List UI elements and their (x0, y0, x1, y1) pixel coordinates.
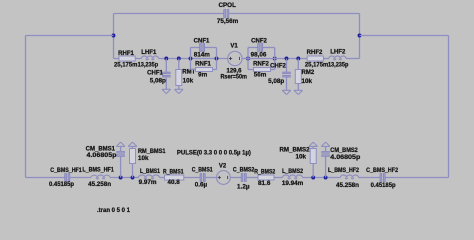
capacitor C_BMS2 (241, 174, 243, 182)
node loop1 right (215, 57, 219, 61)
wire loop1 frame (190, 48, 192, 70)
svg-text:56m: 56m (254, 72, 267, 79)
svg-text:98,06: 98,06 (251, 51, 267, 58)
node loop2 right (273, 57, 277, 61)
svg-text:C_BMS_HF1: C_BMS_HF1 (50, 168, 82, 174)
wire bottom seg4 (160, 177, 165, 179)
capacitor C_BMS_HF1 (65, 174, 67, 182)
ground above CM_BMS2 (321, 142, 330, 146)
svg-text:V1: V1 (230, 43, 238, 49)
inductor LHF1 (142, 56, 159, 60)
node RM2 junction (296, 57, 300, 61)
resistor RMT (178, 59, 180, 70)
wire bottom seg8 (246, 177, 258, 179)
wire bottom seg6 (205, 177, 217, 179)
svg-text:RM2: RM2 (302, 70, 315, 76)
svg-text:40.8: 40.8 (167, 179, 180, 186)
resistor R_BMS2 (258, 175, 274, 180)
wire bottom seg1 (26, 177, 66, 179)
capacitor CNF2 (258, 44, 260, 52)
node left junction (112, 34, 116, 38)
resistor RHF2 (307, 56, 323, 61)
svg-text:4.06805p: 4.06805p (87, 152, 117, 159)
svg-text:CHF2: CHF2 (270, 64, 286, 70)
node RM_BMS2 junction (311, 176, 315, 180)
svg-text:5,08p: 5,08p (268, 78, 284, 85)
inductor L_BMS_HF2 (341, 175, 359, 179)
node CM_BMS1 junction (119, 176, 123, 180)
svg-text:RNF1: RNF1 (195, 61, 211, 67)
wire bottom seg7 (230, 177, 241, 179)
svg-text:Rser=50m: Rser=50m (220, 73, 247, 80)
resistor RNF2 (254, 68, 271, 72)
node RMT junction (177, 57, 181, 61)
resistor R_BMS1 (165, 175, 184, 180)
svg-text:C_BMS2: C_BMS2 (233, 168, 255, 174)
resistor RNF1 (196, 68, 213, 72)
svg-text:PULSE(0 3.3 0 0 0 0.5µ 1µ): PULSE(0 3.3 0 0 0 0.5µ 1µ) (177, 149, 251, 156)
wire upper-left horizontal (26, 35, 114, 37)
inductor L_BMS_HF1 (91, 175, 110, 179)
capacitor C_BMS1 (200, 174, 202, 182)
svg-text:10k: 10k (302, 78, 313, 85)
voltage source V1 (228, 51, 242, 65)
svg-text:0.45185p: 0.45185p (49, 181, 74, 188)
svg-text:9m: 9m (198, 72, 208, 79)
wire bottom seg10 (303, 177, 341, 179)
svg-text:L_BMS2: L_BMS2 (282, 169, 304, 175)
svg-text:5,08p: 5,08p (150, 78, 166, 85)
wire RHF2 to LHF2 (323, 58, 329, 60)
wire left drop (113, 14, 115, 59)
wire bottom seg11 (359, 177, 381, 179)
svg-text:4.06805p: 4.06805p (330, 154, 360, 161)
svg-text:0.6µ: 0.6µ (195, 181, 208, 188)
ground above RM_BMS1 (128, 142, 137, 146)
wire top rail right segment (228, 13, 359, 15)
svg-text:.tran 0 5 0 1: .tran 0 5 0 1 (97, 207, 130, 214)
wire right drop (359, 14, 361, 59)
node CHF1 junction (164, 57, 168, 61)
svg-text:RNF2: RNF2 (253, 61, 269, 67)
resistor RM2 (297, 59, 299, 70)
wire mid into RHF1 (114, 58, 142, 60)
wire bottom seg12 (385, 177, 448, 179)
resistor RM_BMS2 (312, 164, 314, 178)
svg-text:L_BMS1: L_BMS1 (140, 169, 161, 175)
svg-text:CHF1: CHF1 (147, 70, 163, 76)
svg-text:CPOL: CPOL (218, 2, 236, 9)
svg-text:LHF1: LHF1 (141, 50, 157, 56)
ground under RM2 (294, 90, 303, 94)
capacitor CM_BMS1 (120, 157, 122, 178)
capacitor CM_BMS2 (325, 157, 327, 178)
wire upper-right horizontal (360, 35, 449, 37)
inductor L_BMS2 (283, 175, 303, 179)
svg-text:RM_BMS2: RM_BMS2 (280, 147, 311, 153)
resistor RM_BMS1 (132, 164, 134, 178)
node CHF2 junction (285, 57, 289, 61)
ground above RM_BMS2 (309, 142, 318, 146)
ground under CHF1 (162, 89, 171, 93)
wire bottom seg9 (274, 177, 283, 179)
svg-text:10k: 10k (295, 154, 306, 161)
svg-text:10k: 10k (183, 77, 194, 84)
capacitor CPOL (224, 10, 226, 18)
svg-text:1.2µ: 1.2µ (237, 183, 250, 190)
svg-text:L_BMS_HF1: L_BMS_HF1 (82, 167, 114, 173)
svg-text:CNF2: CNF2 (251, 39, 267, 45)
svg-text:13,235p: 13,235p (138, 62, 159, 69)
svg-text:10k: 10k (138, 155, 149, 162)
node CM_BMS2 junction (324, 176, 328, 180)
wire left rail (25, 36, 27, 178)
inductor LHF2 (329, 56, 346, 60)
voltage source V2 (217, 171, 231, 185)
wire mid LHF1 to V1 (159, 58, 228, 60)
wire bottom seg3 (110, 177, 139, 179)
svg-text:RHF2: RHF2 (307, 50, 323, 56)
svg-text:0.45185p: 0.45185p (371, 182, 396, 189)
svg-text:814m: 814m (194, 51, 211, 58)
svg-text:L_BMS_HF2: L_BMS_HF2 (328, 168, 360, 174)
node right junction (358, 34, 362, 38)
wire bottom seg2 (70, 177, 91, 179)
svg-text:45.258n: 45.258n (88, 181, 111, 188)
node loop1 left (189, 57, 193, 61)
svg-text:R_BMS1: R_BMS1 (163, 169, 184, 175)
svg-text:LHF2: LHF2 (330, 50, 346, 56)
capacitor CNF1 (200, 44, 202, 52)
inductor L_BMS1 (139, 175, 160, 179)
svg-text:C_BMS1: C_BMS1 (192, 168, 214, 174)
svg-text:RMT: RMT (182, 69, 195, 75)
svg-text:V2: V2 (219, 163, 227, 169)
capacitor CHF1 (165, 59, 167, 73)
node loop2 left (246, 57, 250, 61)
svg-text:19.94m: 19.94m (282, 180, 304, 187)
capacitor C_BMS_HF2 (380, 174, 382, 182)
resistor RHF1 (119, 56, 135, 61)
ground under CHF2 (282, 90, 291, 94)
svg-text:25,175m: 25,175m (305, 62, 329, 69)
svg-text:R_BMS2: R_BMS2 (254, 169, 276, 175)
svg-text:45.258n: 45.258n (336, 182, 359, 189)
wire mid V1 to RHF2 (242, 58, 307, 60)
svg-text:9.97m: 9.97m (139, 179, 157, 186)
svg-text:C_BMS_HF2: C_BMS_HF2 (366, 168, 399, 174)
svg-text:13,235p: 13,235p (328, 62, 349, 69)
wire bottom seg5 (184, 177, 201, 179)
wire top rail left segment (114, 13, 225, 15)
ground under RMT (175, 89, 184, 93)
svg-text:81.6: 81.6 (258, 180, 271, 187)
wire right rail (448, 36, 450, 178)
wire loop2 frame (247, 48, 249, 70)
node RM_BMS1 junction (131, 176, 135, 180)
wire LHF2 to right drop (346, 58, 360, 60)
svg-text:RHF1: RHF1 (118, 51, 134, 57)
svg-text:75,56m: 75,56m (217, 18, 239, 25)
capacitor CHF2 (286, 59, 288, 73)
svg-text:25,175m: 25,175m (114, 62, 138, 69)
ground above CM_BMS1 (116, 142, 125, 146)
svg-text:CNF1: CNF1 (194, 39, 210, 45)
